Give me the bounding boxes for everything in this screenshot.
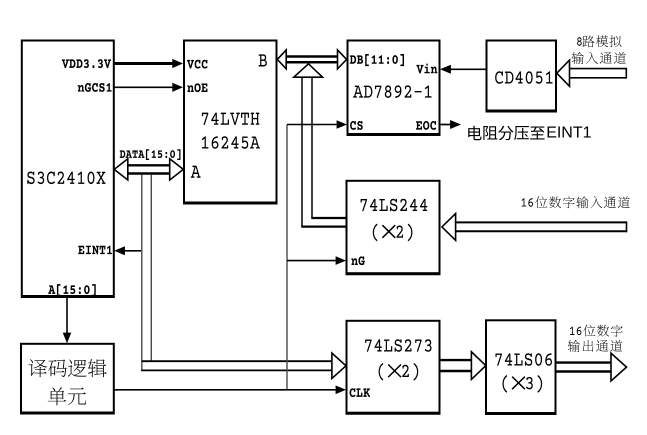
bus 74LS244 up-arrow to B bus: [301, 78, 303, 227]
pin nOE: [187, 85, 194, 92]
label 8-ch analog line2: [572, 52, 584, 64]
pin CS: [350, 121, 356, 130]
block decoder logic unit: [21, 344, 114, 413]
label 74LS06: [495, 353, 502, 365]
pin VCC: [187, 60, 194, 69]
label 74LS273 x2: [379, 363, 384, 381]
bus 8-ch analog input arrow: [570, 68, 627, 70]
block U2 74LVTH16245A: [184, 41, 277, 203]
bus label DATA[15:0]: [120, 150, 126, 158]
pin EINT1: [78, 246, 84, 254]
label 74LS06 x3: [502, 375, 507, 393]
wire EOC out: [440, 124, 451, 126]
label 74LS244: [361, 199, 368, 211]
bus 16-bit digital input arrow: [456, 221, 627, 223]
pin Vin: [416, 65, 423, 74]
wire VDD3.3V to VCC: [114, 62, 174, 65]
wire chip-select vertical from decoder: [286, 125, 288, 390]
pin A[15:0]: [48, 285, 55, 293]
label 74LVTH: [202, 113, 209, 125]
block U4 CD4051: [487, 41, 557, 111]
label 74LS273: [365, 339, 372, 351]
label 8-ch analog line1: [577, 37, 582, 46]
label CD4051: [495, 71, 503, 84]
pin A: [191, 166, 201, 178]
wire A[15:0] to decoder: [66, 297, 68, 336]
pin B: [259, 54, 267, 66]
label 74LS244 x2: [373, 224, 378, 242]
bus DATA[15:0] double arrow: [127, 164, 172, 166]
block U5 74LS244: [347, 181, 440, 273]
label 16245A: [202, 136, 209, 148]
wire decoder to CLK: [114, 389, 337, 391]
svg-text:EINT1: EINT1: [546, 125, 591, 142]
bus B port double arrow: [285, 55, 340, 58]
block U1 S3C2410X: [22, 41, 114, 297]
wire nGCS1 to nOE: [114, 86, 174, 88]
bus arrowhead into 74LS273: [332, 353, 346, 378]
label decoder line1 yi-ma-luo-ji: [28, 359, 47, 377]
label resistor-divider to EINT1: [468, 126, 481, 140]
block U7 74LS06: [486, 320, 556, 413]
pin nGCS1: [78, 85, 85, 92]
wire nG stub: [287, 260, 337, 262]
box bottom accents: [21, 296, 115, 298]
block U6 74LS273: [347, 321, 440, 413]
label 16-bit digital output line1: [570, 327, 575, 335]
label S3C2410X: [27, 172, 34, 185]
label 16-bit digital input channel: [522, 198, 527, 206]
block U3 AD7892-1: [348, 41, 440, 135]
label AD7892-1: [353, 86, 363, 98]
pin DB[11:0]: [350, 55, 356, 63]
bus 74LS06 output arrow: [556, 361, 613, 363]
label decoder line2 dan-yuan: [48, 387, 66, 405]
label 16-bit digital output line2: [568, 340, 580, 352]
bus 74LS273 to 74LS06: [440, 359, 473, 361]
pin EOC: [416, 121, 422, 129]
bus DATA vertical run to 74LS273: [141, 175, 143, 371]
pin nG: [351, 258, 358, 265]
wire CD4051 to Vin: [451, 68, 487, 70]
pin VDD3.3V: [62, 59, 69, 68]
pin CLK: [350, 388, 356, 397]
wire CS stub: [287, 124, 338, 126]
wire EINT1: [124, 250, 141, 252]
